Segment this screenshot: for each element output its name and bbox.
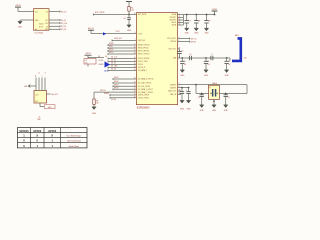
svg-text:1nF: 1nF <box>184 64 186 66</box>
svg-text:BYTE: BYTE <box>39 27 43 29</box>
svg-text:R1: R1 <box>131 7 133 9</box>
svg-text:SD_CMD_GPIO11: SD_CMD_GPIO11 <box>138 83 151 85</box>
svg-text:26: 26 <box>134 96 136 98</box>
svg-text:22: 22 <box>134 88 136 90</box>
svg-text:U1 25Q32: U1 25Q32 <box>35 32 44 34</box>
svg-text:VDD_RTC: VDD_RTC <box>169 49 177 51</box>
svg-text:GND: GND <box>200 110 205 112</box>
svg-text:14: 14 <box>134 60 136 62</box>
svg-text:WP: WP <box>45 29 48 31</box>
svg-text:GPIO0: GPIO0 <box>33 129 41 133</box>
svg-text:SD_CLK: SD_CLK <box>111 57 117 59</box>
svg-text:MTDI_GPIO12: MTDI_GPIO12 <box>138 48 149 50</box>
svg-text:EXT_RSTB: EXT_RSTB <box>95 12 105 14</box>
svg-text:C11: C11 <box>198 97 201 99</box>
svg-text:18: 18 <box>134 69 136 71</box>
svg-text:C: C <box>186 90 187 92</box>
svg-text:10K: 10K <box>131 9 134 11</box>
svg-text:C9: C9 <box>190 54 192 56</box>
svg-text:R4: R4 <box>96 101 98 103</box>
svg-text:C12: C12 <box>228 97 231 99</box>
svg-text:CHIP_EN: CHIP_EN <box>114 38 122 40</box>
svg-text:25Q32: 25Q32 <box>39 24 44 26</box>
svg-text:GND: GND <box>18 27 23 29</box>
svg-text:VDD33: VDD33 <box>15 5 20 7</box>
svg-text:16: 16 <box>134 63 136 65</box>
svg-text:NC: NC <box>86 63 88 65</box>
svg-text:GND: GND <box>224 110 229 112</box>
svg-text:10: 10 <box>134 47 136 49</box>
svg-text:21: 21 <box>134 85 136 87</box>
svg-text:U0RXD_GPIO3: U0RXD_GPIO3 <box>138 95 149 97</box>
svg-text:ESP8266EX: ESP8266EX <box>137 107 150 109</box>
svg-text:GPIO0: GPIO0 <box>114 77 119 79</box>
svg-text:C6: C6 <box>182 50 184 52</box>
svg-text:VDDPST: VDDPST <box>170 20 176 22</box>
svg-text:GPIO16: GPIO16 <box>170 41 176 43</box>
svg-text:VDD33: VDD33 <box>212 9 217 11</box>
svg-text:MTCK_GPIO13: MTCK_GPIO13 <box>138 51 149 53</box>
svg-text:SD_D1: SD_D1 <box>111 63 116 65</box>
svg-text:GPIO4: GPIO4 <box>114 85 119 87</box>
svg-text:B: B <box>39 73 40 75</box>
svg-text:Flash Boot: Flash Boot <box>69 145 79 148</box>
svg-text:GND: GND <box>225 75 230 77</box>
svg-text:3V3: 3V3 <box>35 101 38 103</box>
svg-text:12K: 12K <box>96 103 99 105</box>
svg-text:SD_D3: SD_D3 <box>111 69 116 71</box>
svg-text:X1: X1 <box>209 87 211 89</box>
svg-text:0R: 0R <box>98 56 100 58</box>
svg-text:GND: GND <box>187 109 192 111</box>
svg-text:GND: GND <box>204 75 209 77</box>
svg-text:GND: GND <box>212 110 217 112</box>
svg-text:GND: GND <box>127 30 132 32</box>
svg-text:EXT_RSTB: EXT_RSTB <box>138 14 146 16</box>
svg-text:GND: GND <box>185 32 190 34</box>
svg-text:SD_D3: SD_D3 <box>61 29 66 31</box>
svg-text:VDD3P3: VDD3P3 <box>170 87 176 89</box>
svg-text:C8: C8 <box>228 61 230 63</box>
svg-text:U0TXD_GPIO1: U0TXD_GPIO1 <box>138 98 149 100</box>
svg-text:GPIO2: GPIO2 <box>114 81 119 83</box>
svg-text:1nF: 1nF <box>189 20 191 22</box>
svg-text:GPIO0_SPICS2: GPIO0_SPICS2 <box>138 58 150 60</box>
svg-text:GPIO4: GPIO4 <box>138 64 143 66</box>
svg-text:20: 20 <box>134 82 136 84</box>
svg-text:26MHz: 26MHz <box>212 83 217 85</box>
svg-text:Uart Download: Uart Download <box>67 140 82 143</box>
svg-text:GPIO5: GPIO5 <box>114 87 119 89</box>
svg-text:MTDI: MTDI <box>109 46 113 48</box>
svg-text:GND: GND <box>180 75 185 77</box>
svg-text:SD_D0: SD_D0 <box>111 60 116 62</box>
svg-text:GPIO2: GPIO2 <box>48 129 56 133</box>
svg-text:VDD3P3: VDD3P3 <box>170 84 176 86</box>
svg-text:CHIP_EN: CHIP_EN <box>138 40 146 42</box>
svg-text:GND: GND <box>205 32 210 34</box>
svg-text:R7: R7 <box>86 60 88 62</box>
svg-text:SD_CLK_GPIO6: SD_CLK_GPIO6 <box>138 86 150 88</box>
svg-text:GND: GND <box>180 109 185 111</box>
svg-text:24: 24 <box>134 66 136 68</box>
svg-text:13: 13 <box>134 53 136 55</box>
svg-text:C15: C15 <box>123 18 126 20</box>
svg-text:C8: C8 <box>184 61 186 63</box>
svg-text:TOUT: TOUT <box>138 33 142 35</box>
svg-text:X: X <box>51 134 53 138</box>
svg-text:23: 23 <box>134 91 136 93</box>
svg-text:SD_D0: SD_D0 <box>61 26 66 28</box>
svg-text:1nF: 1nF <box>208 20 210 22</box>
svg-text:GND: GND <box>92 113 97 115</box>
svg-text:2.4G: 2.4G <box>244 57 247 59</box>
svg-text:GPIO5_IR: GPIO5_IR <box>138 67 146 69</box>
svg-text:TOUT: TOUT <box>116 31 120 33</box>
svg-text:GPIO15: GPIO15 <box>100 90 106 92</box>
svg-text:MTMS_GPIO14: MTMS_GPIO14 <box>138 45 149 47</box>
svg-text:GPIO2_TXD1: GPIO2_TXD1 <box>138 61 148 63</box>
svg-text:15: 15 <box>134 57 136 59</box>
svg-text:SD_CLK: SD_CLK <box>61 23 68 25</box>
svg-text:MTCK: MTCK <box>109 49 113 51</box>
svg-text:0R: 0R <box>105 56 107 58</box>
svg-text:SD_D1: SD_D1 <box>61 20 66 22</box>
svg-text:SD_CMD: SD_CMD <box>111 66 118 68</box>
svg-text:CS: CS <box>46 12 48 14</box>
svg-text:1nF: 1nF <box>198 20 200 22</box>
svg-text:GPIO15: GPIO15 <box>19 129 29 133</box>
svg-text:L1: L1 <box>211 54 213 56</box>
svg-text:25: 25 <box>134 94 136 96</box>
svg-text:1nF: 1nF <box>228 64 230 66</box>
svg-text:VDDPST: VDDPST <box>170 17 176 19</box>
svg-text:D: D <box>45 73 46 75</box>
svg-text:12: 12 <box>134 50 136 52</box>
svg-text:GPIO16: GPIO16 <box>191 41 197 43</box>
svg-text:VDD33: VDD33 <box>86 53 91 55</box>
svg-text:XPD_DCDC: XPD_DCDC <box>167 38 177 40</box>
svg-text:XPD_DC: XPD_DC <box>191 38 198 40</box>
svg-text:32: 32 <box>134 13 136 15</box>
svg-text:1nF: 1nF <box>208 64 210 66</box>
svg-text:X: X <box>36 134 38 138</box>
svg-text:C8: C8 <box>208 61 210 63</box>
svg-text:Use SDIO Boot: Use SDIO Boot <box>67 135 82 138</box>
svg-text:MTDO_GPIO15: MTDO_GPIO15 <box>138 54 149 56</box>
svg-text:19: 19 <box>134 78 136 80</box>
svg-text:GND: GND <box>194 32 199 34</box>
svg-text:C: C <box>42 75 43 77</box>
svg-text:HD: HD <box>35 29 37 31</box>
svg-text:SD_CS: SD_CS <box>61 11 66 13</box>
svg-text:MTMS: MTMS <box>109 43 113 45</box>
svg-text:+10: +10 <box>38 117 41 119</box>
